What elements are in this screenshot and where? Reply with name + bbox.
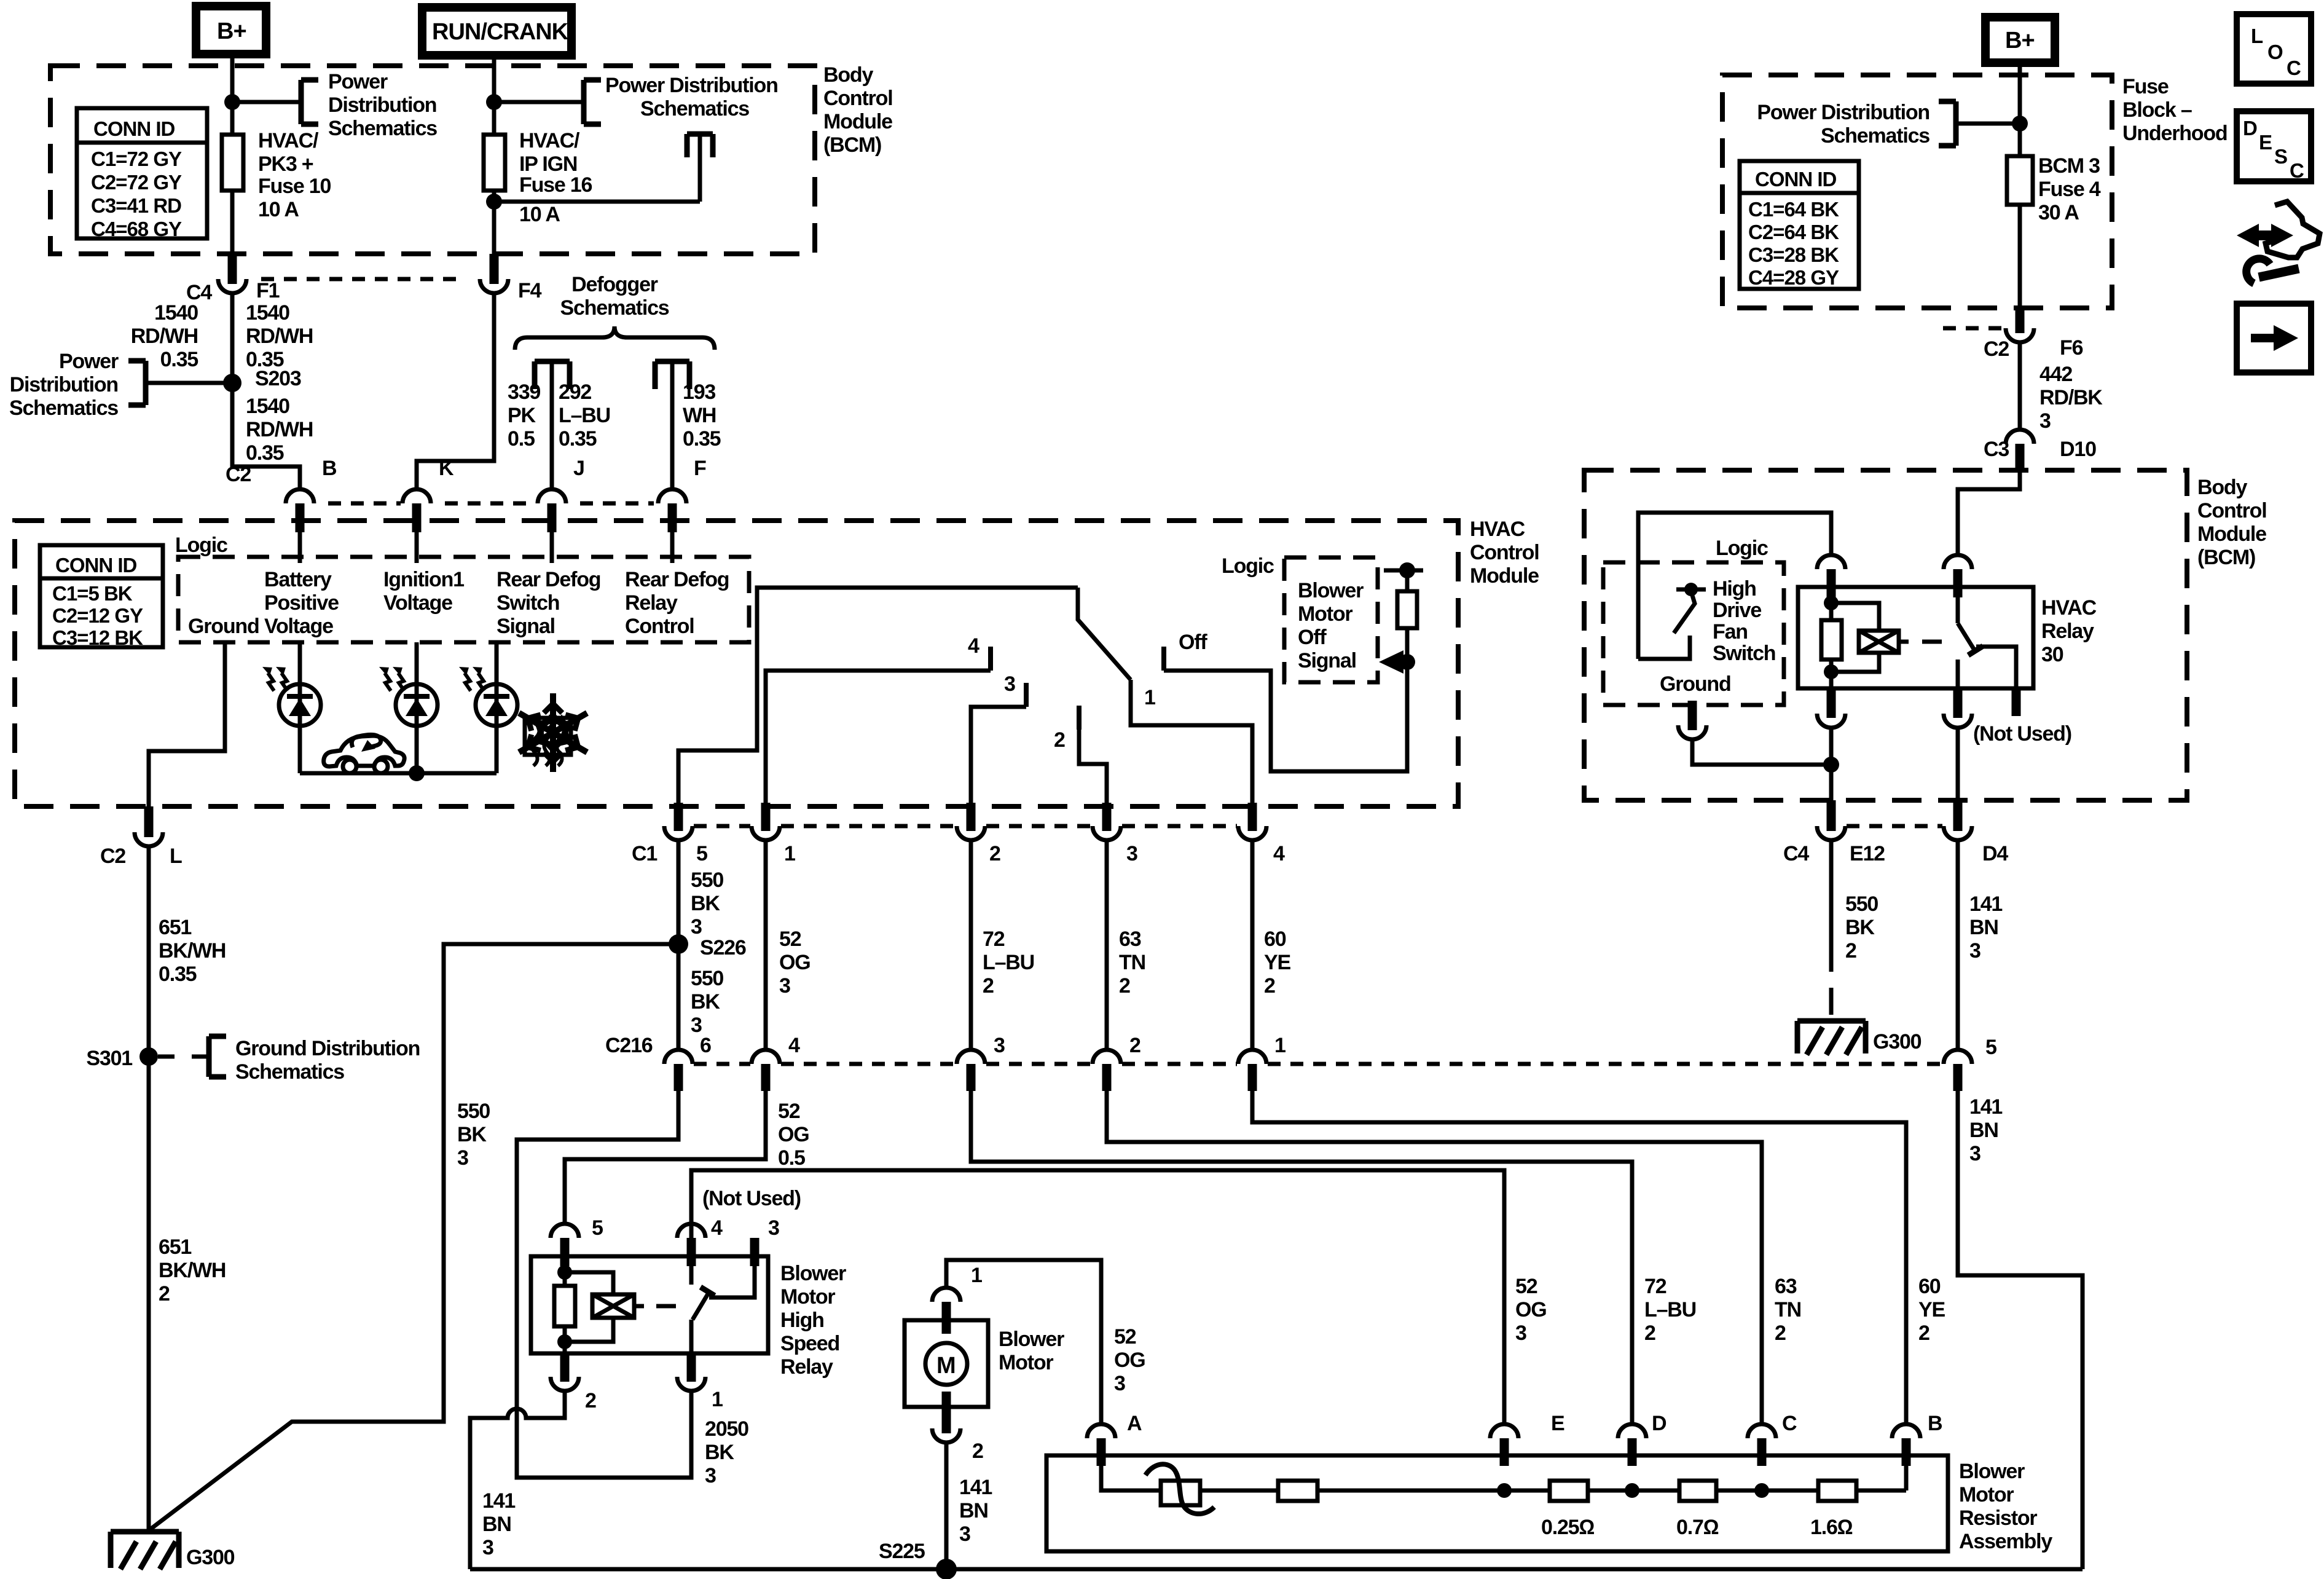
label 2050 BK 3 [705, 1417, 748, 1487]
defogger branch bracket (right) [655, 361, 689, 389]
svg-text:0.35: 0.35 [160, 348, 198, 371]
connector blower motor pin 1 [932, 1264, 982, 1334]
svg-text:C2=72 GY: C2=72 GY [91, 171, 182, 194]
svg-text:651: 651 [159, 1235, 191, 1259]
svg-text:Assembly: Assembly [1959, 1530, 2052, 1553]
svg-text:C4=28 GY: C4=28 GY [1748, 266, 1839, 289]
svg-text:RD/WH: RD/WH [246, 418, 313, 441]
connector HVAC relay coil bottom pin [1817, 688, 1845, 728]
connector resistor pin B [1892, 1412, 1942, 1466]
svg-text:Relay: Relay [780, 1355, 833, 1379]
svg-text:193: 193 [683, 380, 715, 404]
svg-text:Motor: Motor [1298, 602, 1352, 626]
svg-text:Ignition1: Ignition1 [383, 568, 464, 591]
ground G300 (left) [111, 1532, 235, 1569]
svg-text:3: 3 [994, 1034, 1005, 1057]
svg-text:Battery: Battery [264, 568, 332, 591]
svg-text:60: 60 [1918, 1275, 1941, 1298]
svg-text:550: 550 [1845, 892, 1878, 916]
connector C1 pin 3 [1093, 803, 1137, 865]
relay K (Blower Motor High Speed Relay) box [531, 1256, 846, 1379]
svg-text:10 A: 10 A [258, 198, 299, 221]
reference Power Distribution Schematics (right) [1757, 101, 2020, 148]
svg-text:G300: G300 [186, 1546, 235, 1569]
svg-text:442: 442 [2039, 363, 2072, 386]
svg-text:1: 1 [784, 842, 795, 865]
svg-text:3: 3 [1515, 1321, 1526, 1345]
fan switch contact 4 [766, 634, 991, 803]
icon arrows and wrench [2237, 202, 2320, 283]
label Body Control Module (BCM) [823, 63, 892, 157]
svg-text:1: 1 [712, 1388, 723, 1411]
wire 550 BK 3 from S226 to ground run [149, 944, 678, 1530]
svg-text:BN: BN [959, 1499, 988, 1522]
svg-text:2: 2 [1119, 974, 1130, 998]
svg-text:1.6Ω: 1.6Ω [1810, 1516, 1853, 1539]
svg-text:550: 550 [457, 1100, 490, 1123]
wire 63 TN 2 C216-2 to resistor pin C [1107, 1091, 1801, 1424]
svg-text:550: 550 [691, 868, 723, 892]
reference Defogger Schematics brace [515, 273, 715, 350]
svg-text:Schematics: Schematics [640, 97, 749, 120]
svg-text:S203: S203 [255, 367, 301, 390]
svg-text:Blower: Blower [780, 1262, 846, 1285]
connector resistor pin D [1618, 1412, 1666, 1466]
svg-text:0.25Ω: 0.25Ω [1541, 1516, 1594, 1539]
svg-text:S225: S225 [879, 1540, 925, 1563]
wire logic switch to relay coil [1638, 513, 1831, 659]
svg-text:C2=12 GY: C2=12 GY [52, 604, 143, 627]
svg-text:2: 2 [1918, 1321, 1929, 1345]
svg-text:TN: TN [1119, 951, 1145, 974]
svg-text:BK/WH: BK/WH [159, 1259, 226, 1282]
svg-text:Drive: Drive [1713, 599, 1761, 622]
svg-text:Ground: Ground [188, 615, 259, 638]
svg-text:BN: BN [1969, 916, 1998, 939]
svg-text:BK: BK [691, 892, 720, 915]
wire 292 L-BU to HVAC pin J [552, 364, 610, 490]
svg-text:550: 550 [691, 967, 723, 990]
svg-text:141: 141 [482, 1489, 515, 1513]
Blower Motor Off Signal dashed box [1284, 557, 1378, 682]
svg-text:651: 651 [159, 916, 191, 939]
svg-text:C2: C2 [100, 845, 125, 868]
connector F4 [480, 254, 542, 302]
connector C1 pin 4 [1238, 803, 1285, 865]
wire 52 OG 0.5 C216-4 to blower relay pin 5 [565, 1091, 809, 1224]
logic pin labels [188, 568, 729, 638]
svg-text:J: J [573, 457, 584, 480]
svg-text:L–BU: L–BU [559, 404, 610, 427]
svg-text:RD/BK: RD/BK [2039, 386, 2103, 409]
svg-text:BCM 3: BCM 3 [2038, 154, 2100, 178]
svg-text:Control: Control [823, 87, 892, 110]
svg-text:Defogger: Defogger [571, 273, 658, 296]
svg-text:Power Distribution: Power Distribution [1757, 101, 1929, 124]
svg-text:C2=64 BK: C2=64 BK [1748, 221, 1839, 243]
svg-text:Module: Module [1470, 564, 1539, 588]
fuse F16 HVAC/IP IGN [484, 129, 592, 226]
car recirculation icon [324, 734, 404, 773]
connector C216 pin 2 [1093, 1034, 1140, 1091]
connector C216 pin 1 [1238, 1034, 1286, 1091]
svg-text:Switch: Switch [497, 591, 559, 615]
svg-text:BK: BK [705, 1441, 734, 1464]
blower relay coil [565, 1272, 676, 1342]
svg-text:Switch: Switch [1713, 642, 1775, 665]
high drive fan switch [1638, 577, 1775, 665]
svg-text:C1=64 BK: C1=64 BK [1748, 198, 1839, 221]
svg-text:C: C [2287, 57, 2301, 79]
svg-text:5: 5 [1985, 1036, 1996, 1059]
svg-text:4: 4 [968, 634, 979, 658]
svg-text:2050: 2050 [705, 1417, 748, 1441]
svg-text:CONN ID: CONN ID [1755, 168, 1837, 191]
svg-text:52: 52 [778, 1100, 800, 1123]
connector C2 / F6 [1943, 308, 2083, 361]
connector pin 5 (to resistor harness) [1944, 1036, 1996, 1091]
svg-text:0.35: 0.35 [683, 427, 721, 451]
svg-text:63: 63 [1775, 1275, 1797, 1298]
svg-text:Fuse 10: Fuse 10 [258, 175, 331, 198]
svg-text:L–BU: L–BU [983, 951, 1034, 974]
svg-text:(Not Used): (Not Used) [702, 1187, 801, 1210]
svg-text:D: D [1652, 1412, 1666, 1435]
svg-text:Schematics: Schematics [9, 396, 118, 420]
svg-text:HVAC/: HVAC/ [258, 129, 319, 152]
svg-text:Relay: Relay [625, 591, 678, 615]
svg-text:BK: BK [457, 1123, 487, 1146]
svg-text:52: 52 [1515, 1275, 1537, 1298]
svg-text:3: 3 [457, 1146, 468, 1170]
signal direction arrow [1379, 650, 1407, 674]
svg-text:BN: BN [482, 1513, 511, 1536]
svg-text:10 A: 10 A [519, 203, 560, 226]
svg-text:High: High [780, 1309, 824, 1332]
svg-text:Fuse: Fuse [2122, 75, 2169, 98]
svg-text:5: 5 [696, 842, 707, 865]
fan switch wiper feed wire (to C1 pin 5) [678, 588, 1078, 803]
wire relay output to D4 [1956, 728, 1960, 800]
reference Power Distribution Schematics (right of fuse16, upper) [494, 74, 778, 124]
svg-text:B+: B+ [2005, 28, 2035, 53]
wire 72 L-BU 2 (C1-2 to C216-3) [971, 840, 1034, 1050]
wire 63 TN 2 (C1-3 to C216-2) [1107, 840, 1145, 1050]
svg-text:S301: S301 [86, 1047, 132, 1070]
svg-text:141: 141 [1969, 892, 2002, 916]
svg-text:E: E [1551, 1412, 1564, 1435]
svg-text:5: 5 [592, 1216, 603, 1240]
svg-text:Distribution: Distribution [328, 93, 436, 117]
svg-text:OG: OG [778, 1123, 809, 1146]
connector C3 / D10 [1984, 430, 2096, 470]
wire 52 OG 3 relay pin 4 to resistor pin E [691, 1170, 1547, 1424]
svg-text:C: C [2290, 159, 2304, 182]
junction on LED bus [409, 765, 425, 781]
junction on RUN/CRANK feed [486, 94, 502, 110]
svg-text:1540: 1540 [246, 301, 289, 325]
svg-text:Distribution: Distribution [10, 373, 118, 396]
Blower Motor Resistor Assembly box [1046, 1455, 2052, 1553]
svg-text:Body: Body [823, 63, 873, 87]
svg-text:Rear Defog: Rear Defog [497, 568, 600, 591]
wire 193 WH to HVAC pin F [672, 364, 721, 490]
wire B+ down to fuse 10 [230, 54, 235, 135]
connector blower relay pin 1 [677, 1353, 723, 1411]
svg-text:141: 141 [1969, 1095, 2002, 1119]
connector blower relay pin 5 [551, 1216, 603, 1266]
ground G300 (right) [1797, 1021, 1922, 1055]
svg-text:3: 3 [779, 974, 790, 998]
svg-text:CONN ID: CONN ID [93, 117, 175, 140]
svg-text:63: 63 [1119, 927, 1141, 951]
connector blower relay pin 2 [551, 1353, 596, 1412]
svg-text:D: D [2243, 117, 2257, 140]
wire 339 PK from F4 to HVAC pin K [417, 293, 540, 490]
svg-text:PK: PK [508, 404, 536, 427]
HVAC relay pin (Not Used) [1973, 688, 2071, 746]
svg-text:0.5: 0.5 [778, 1146, 805, 1170]
wire 550 BK 2 to G300 (dashed) [1831, 840, 1878, 1019]
svg-text:2: 2 [1644, 1321, 1655, 1345]
splice S226 [669, 934, 746, 959]
svg-text:Schematics: Schematics [328, 117, 437, 140]
connector BCM logic ground pin [1678, 701, 1706, 739]
wire 442 RD/BK 3 [2020, 342, 2103, 433]
svg-text:Blower: Blower [1298, 579, 1364, 602]
connector resistor pin A [1087, 1412, 1142, 1466]
svg-text:Logic: Logic [1222, 554, 1274, 578]
svg-text:RD/WH: RD/WH [131, 325, 198, 348]
CONN ID table (top left) [77, 108, 207, 240]
fan switch wiper blade position 1 [1078, 588, 1252, 803]
wire 651 BK/WH 0.35 [149, 846, 226, 1057]
svg-text:Power Distribution: Power Distribution [605, 74, 778, 97]
svg-text:O: O [2267, 41, 2283, 63]
svg-text:Relay: Relay [2041, 620, 2094, 643]
svg-text:C4=68 GY: C4=68 GY [91, 218, 182, 240]
svg-text:M: M [936, 1353, 956, 1379]
connector HVAC relay output pin [1944, 688, 1972, 728]
svg-text:3: 3 [768, 1216, 779, 1240]
LED indicator 2 (ignition) [379, 642, 438, 773]
resistor 0.25 ohm [1504, 1481, 1632, 1539]
svg-text:Rear Defog: Rear Defog [625, 568, 729, 591]
svg-text:Motor: Motor [1959, 1483, 2014, 1506]
fuse BCM 3 Fuse 4 30 A [2007, 154, 2101, 224]
svg-text:Positive: Positive [264, 591, 339, 615]
wire stub pin F into logic [670, 532, 675, 563]
svg-text:Power: Power [328, 70, 388, 93]
svg-text:Fuse 16: Fuse 16 [519, 173, 592, 197]
blower motor feed wire 52 OG 3 [946, 1260, 1145, 1424]
svg-text:C3=41 RD: C3=41 RD [91, 194, 181, 217]
relay HVAC Relay 30 box [1798, 587, 2097, 688]
LED indicator 1 (battery) [262, 642, 321, 773]
wire coil return to C4/E12 [1829, 728, 1834, 800]
svg-text:YE: YE [1264, 951, 1290, 974]
wire RUN/CRANK down to fuse 16 [492, 55, 497, 135]
junction at pin D [1625, 1483, 1639, 1498]
reference Power Distribution Schematics (S203) [9, 350, 232, 420]
svg-text:Ground Distribution: Ground Distribution [235, 1037, 420, 1060]
svg-text:C: C [1782, 1412, 1797, 1435]
wire fuse16 to connector F4 [492, 191, 497, 254]
svg-text:B: B [322, 457, 337, 480]
svg-text:OG: OG [779, 951, 811, 974]
BCM (right) dashed box [1584, 470, 2266, 800]
defogger branch bracket (left) [535, 361, 570, 389]
svg-text:F6: F6 [2060, 336, 2083, 360]
HVAC logic dashed box [178, 557, 749, 642]
connector C216 pin 3 [957, 1034, 1005, 1091]
svg-text:G300: G300 [1873, 1030, 1922, 1053]
svg-text:Resistor: Resistor [1959, 1506, 2037, 1530]
snowflake A/C icon [514, 693, 592, 772]
svg-text:2: 2 [1845, 939, 1856, 963]
svg-text:2: 2 [983, 974, 994, 998]
svg-text:S226: S226 [700, 936, 746, 959]
BCM logic dashed box [1603, 562, 1784, 705]
fuse F10 HVAC/PK3 [222, 129, 331, 221]
svg-text:Module: Module [823, 110, 892, 133]
svg-text:1540: 1540 [154, 301, 198, 325]
svg-text:3: 3 [482, 1536, 493, 1559]
svg-text:K: K [439, 457, 454, 480]
wire 651 BK/WH 2 to G300 [149, 1057, 226, 1532]
connector C216 pin 6 [605, 1034, 711, 1091]
svg-text:0.35: 0.35 [559, 427, 597, 451]
svg-text:0.35: 0.35 [159, 963, 197, 986]
svg-text:Control: Control [2197, 499, 2266, 522]
connector C216 pin 4 [752, 1034, 800, 1091]
svg-text:(Not Used): (Not Used) [1973, 722, 2071, 746]
svg-text:Motor: Motor [999, 1351, 1053, 1374]
junction coil return / logic ground [1823, 757, 1839, 773]
svg-text:High: High [1713, 577, 1756, 600]
LED common bus wire [300, 771, 497, 776]
svg-text:141: 141 [959, 1476, 992, 1499]
svg-text:OG: OG [1515, 1298, 1547, 1321]
svg-text:(BCM): (BCM) [823, 133, 881, 157]
svg-text:S: S [2274, 145, 2287, 168]
svg-text:1: 1 [971, 1264, 982, 1287]
wire stub pin B into logic [298, 532, 302, 563]
svg-text:PK3 +: PK3 + [258, 152, 313, 176]
svg-text:52: 52 [779, 927, 801, 951]
svg-text:Speed: Speed [780, 1332, 839, 1355]
svg-text:Off: Off [1298, 626, 1327, 649]
fan switch contact 3 [971, 672, 1026, 803]
svg-text:0.7Ω: 0.7Ω [1676, 1516, 1719, 1539]
svg-text:60: 60 [1264, 927, 1286, 951]
icon right arrow box [2237, 304, 2311, 372]
svg-text:C3: C3 [1984, 438, 2009, 461]
svg-text:3: 3 [959, 1522, 970, 1546]
blower relay pin 3 stub (not used) [755, 1216, 779, 1266]
svg-text:2: 2 [159, 1282, 170, 1305]
svg-text:3: 3 [1004, 672, 1015, 696]
CONN ID table (fuse block) [1740, 161, 1859, 289]
svg-text:BK/WH: BK/WH [159, 939, 226, 963]
svg-text:292: 292 [559, 380, 591, 404]
svg-text:CONN ID: CONN ID [55, 554, 137, 577]
svg-text:30: 30 [2041, 643, 2063, 666]
wire stub pin J into logic [550, 532, 554, 563]
svg-text:F: F [694, 457, 706, 480]
svg-text:52: 52 [1114, 1325, 1136, 1349]
svg-text:IP IGN: IP IGN [519, 152, 577, 176]
svg-text:RD/WH: RD/WH [246, 325, 313, 348]
svg-text:2: 2 [972, 1439, 983, 1463]
power symbol RUN/CRANK [422, 7, 571, 55]
svg-text:HVAC: HVAC [1470, 518, 1525, 541]
svg-text:3: 3 [705, 1464, 716, 1487]
chain resistor (unlabeled) [1200, 1481, 1504, 1501]
svg-text:B+: B+ [217, 18, 246, 44]
svg-text:1540: 1540 [246, 395, 289, 418]
svg-text:4: 4 [711, 1216, 723, 1240]
HVAC Control Module dashed box [15, 521, 1458, 806]
svg-text:4: 4 [788, 1034, 800, 1057]
svg-text:Blower: Blower [999, 1328, 1064, 1351]
svg-text:L: L [2251, 25, 2263, 47]
svg-text:C3=12 BK: C3=12 BK [52, 626, 143, 649]
svg-text:2: 2 [1054, 728, 1065, 752]
resistor 0.7 ohm [1632, 1481, 1762, 1539]
svg-text:Module: Module [2197, 522, 2266, 546]
svg-text:Signal: Signal [497, 615, 555, 638]
svg-text:L–BU: L–BU [1644, 1298, 1696, 1321]
wire fuse 4 to C2/F6 [2018, 205, 2022, 308]
blower relay coil resistor [554, 1264, 575, 1353]
connector C4 / F1 [186, 254, 466, 304]
connector resistor pin C [1748, 1412, 1797, 1466]
svg-text:Logic: Logic [1716, 537, 1768, 560]
svg-text:Voltage: Voltage [383, 591, 452, 615]
connector C2 / pin B (HVAC control module) [226, 457, 401, 532]
power symbol B+ (top right) [1985, 17, 2055, 63]
svg-text:Power: Power [59, 350, 119, 373]
connector C4 / E12 [1783, 800, 1942, 865]
svg-text:6: 6 [700, 1034, 711, 1057]
svg-text:30 A: 30 A [2038, 201, 2079, 224]
label HVAC Control Module [1470, 518, 1539, 588]
svg-text:BN: BN [1969, 1119, 1998, 1142]
LED indicator 3 (rear defog) [459, 642, 517, 773]
resistor 1.6 ohm [1762, 1466, 1906, 1539]
svg-text:Fan: Fan [1713, 620, 1748, 644]
svg-text:RUN/CRANK: RUN/CRANK [432, 19, 569, 45]
connector C1 pin 1 [752, 803, 795, 865]
svg-text:Block –: Block – [2122, 98, 2192, 122]
junction at pin C [1754, 1483, 1769, 1498]
svg-text:(BCM): (BCM) [2197, 546, 2255, 569]
svg-text:C2: C2 [1984, 337, 2009, 361]
CONN ID table (HVAC) [40, 545, 163, 649]
wire 60 YE 2 C216-1 to resistor pin B [1252, 1091, 1945, 1424]
svg-text:Control: Control [1470, 541, 1539, 564]
wire D10 into BCM to relay common [1958, 470, 2020, 555]
wire 72 L-BU 2 C216-3 to resistor pin D [971, 1091, 1696, 1424]
svg-text:C1=72 GY: C1=72 GY [91, 148, 182, 170]
blower off signal pull-up resistor [1384, 562, 1423, 670]
wire 52 OG 3 (C1-1 to C216-4) [766, 840, 811, 1050]
svg-text:C4: C4 [1783, 842, 1809, 865]
splice S301 [86, 1047, 158, 1070]
svg-text:Schematics: Schematics [1821, 124, 1929, 148]
wire 1540 RD/WH from S203 to HVAC pin B [232, 383, 313, 490]
